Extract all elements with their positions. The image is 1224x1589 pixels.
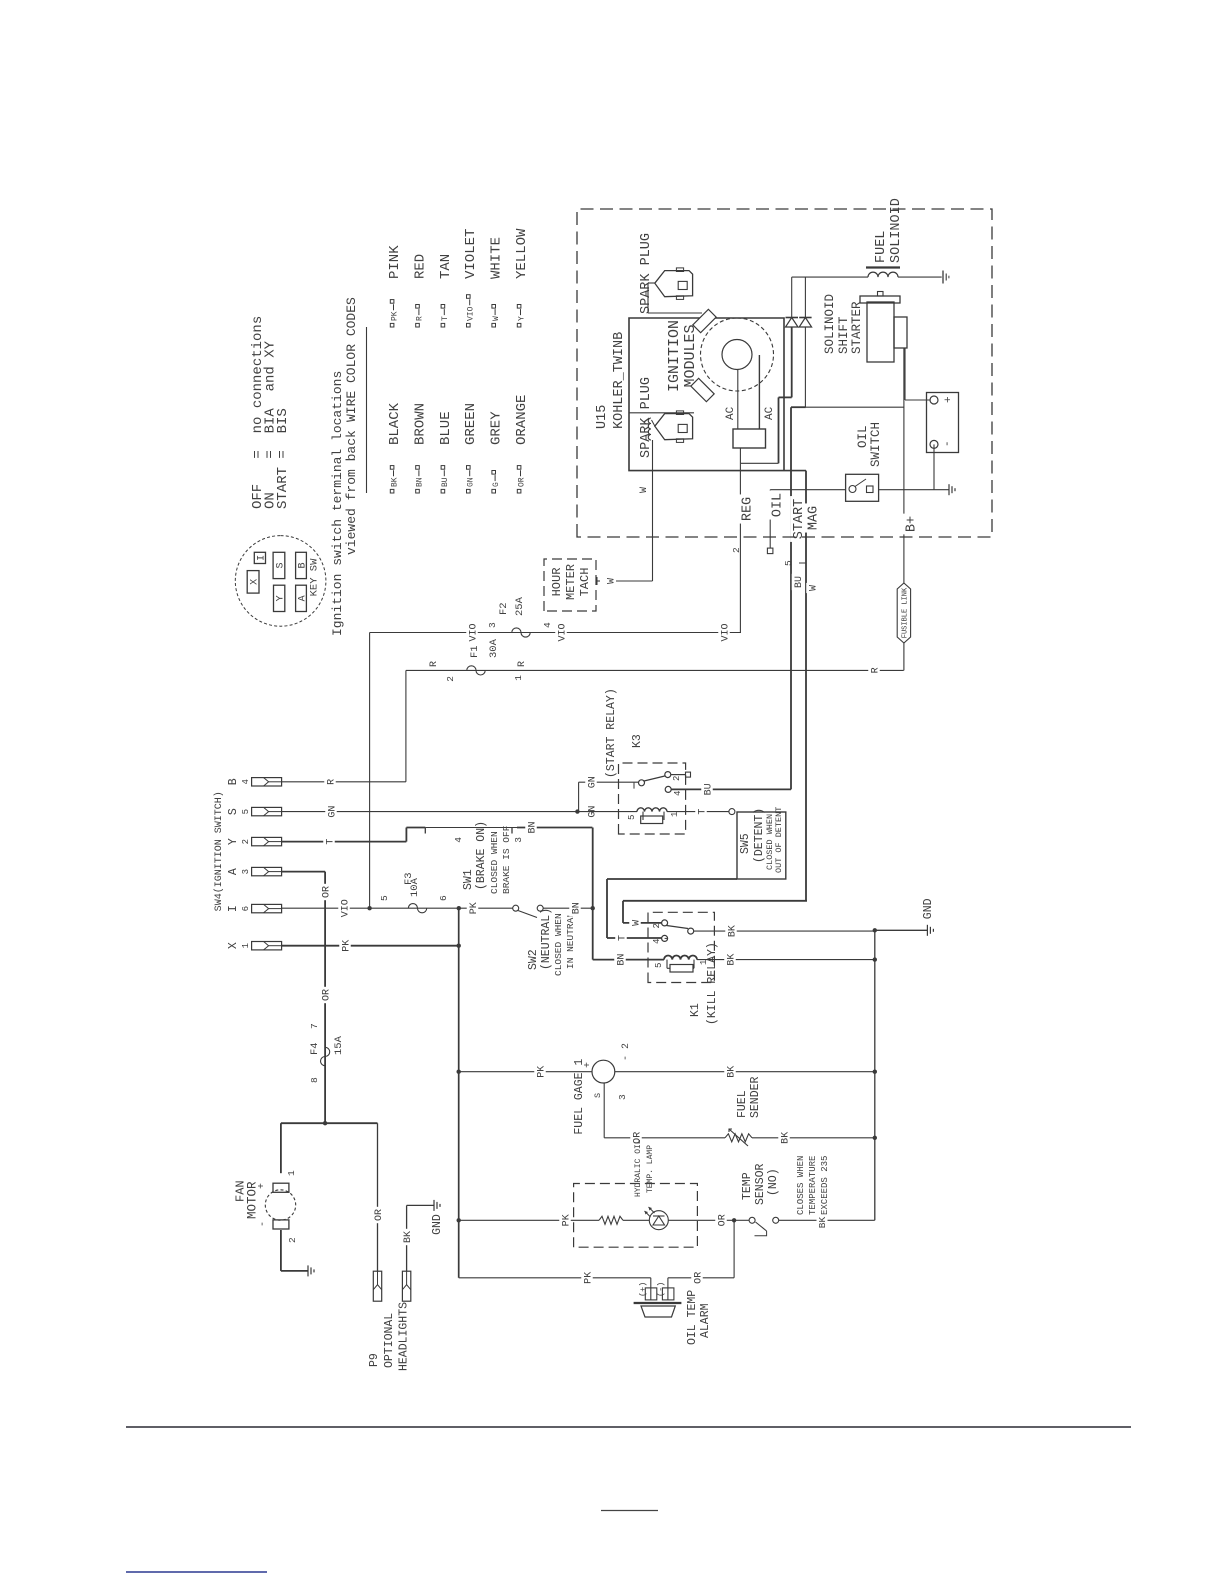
svg-text:T: T [325,839,336,845]
wire: BU from K3 to engine START [671,788,791,790]
svg-text:BU: BU [794,576,805,588]
svg-text:BRAKE IS OFF: BRAKE IS OFF [501,825,512,894]
svg-text:SOLINOID: SOLINOID [889,198,904,263]
svg-text:2: 2 [652,923,662,928]
wire: PK riser (main accessory bus) [458,908,460,1278]
wire: GN branch to K3 pivot [578,782,580,811]
svg-text:EXCEEDS 235: EXCEEDS 235 [820,1156,830,1215]
diode D1 [791,327,793,397]
wire: P9 BK to ground [406,1205,408,1271]
svg-text:5: 5 [783,560,794,566]
wire: PK to lamp [459,1219,599,1221]
svg-text:3: 3 [487,622,498,628]
svg-text:W: W [631,920,642,926]
terminal square OIL [767,548,773,554]
wire: VIO from F2 corner to F3 node [369,633,371,909]
svg-text:BK: BK [727,925,738,937]
battery - terminal [930,440,938,448]
svg-text:(NO): (NO) [767,1168,780,1196]
svg-text:K3: K3 [631,734,644,748]
svg-text:TEMPERATURE: TEMPERATURE [808,1156,818,1215]
ground symbol GND [926,925,928,936]
svg-text:I: I [257,555,268,561]
svg-text:R: R [416,316,425,321]
wire: PK to fuel gauge [459,1071,592,1073]
svg-text:R: R [517,661,528,667]
ground symbol engine [948,484,950,495]
svg-text:PK: PK [469,902,480,914]
wire: VIO feed from ignition switch I terminal to fuses [281,907,369,909]
svg-text:U15: U15 [595,405,610,429]
svg-text:OR: OR [717,1214,728,1226]
svg-text:CLOSED WHEN: CLOSED WHEN [553,913,564,976]
wire: AC 2 [758,355,760,429]
svg-text:BU: BU [441,477,450,487]
svg-text:W: W [492,316,501,321]
wire: lamp output OR [668,1219,734,1221]
svg-text:SW5: SW5 [739,833,752,854]
fusible link [897,583,910,643]
connector P9 BK [402,1271,410,1301]
terminal square below K3 [686,772,691,777]
svg-text:2: 2 [672,776,682,781]
svg-text:SWITCH: SWITCH [869,422,883,467]
svg-text:VIO: VIO [468,623,479,641]
svg-text:BN: BN [616,954,627,966]
fuse F2 25A [512,628,530,637]
svg-text:GND: GND [922,898,935,919]
svg-text:6: 6 [241,906,251,911]
label START terminal [790,496,805,542]
svg-text:FUEL: FUEL [736,1090,749,1118]
wire: OR to fan motor [281,1122,325,1124]
svg-text:PINK: PINK [387,245,403,279]
svg-text:BROWN: BROWN [412,403,428,445]
connector P9 OR [373,1271,381,1301]
wire label VIO on I drop [338,897,350,920]
wire: module left to box edge [629,412,694,414]
fuse F1 30A [406,669,904,671]
svg-text:-: - [258,1221,269,1227]
hydraulic oil temp lamp dashed box [574,1184,698,1248]
svg-text:IGNITION: IGNITION [666,320,683,392]
relay K3 lower contact to BU [665,786,671,792]
svg-text:(+): (+) [638,1282,648,1297]
svg-text:3: 3 [513,837,524,843]
wire: W from hour meter to spark plug [596,580,600,582]
svg-text:BU: BU [703,783,714,795]
svg-text:BN: BN [416,477,425,487]
plug lead coil [648,418,651,440]
rotated schematic [213,198,992,1371]
wire: SW2 feed PK [459,907,513,909]
wire: to temp sensor [734,1219,749,1221]
relay K1 dashed box [648,912,714,982]
svg-text:5: 5 [654,963,664,968]
svg-text:P9: P9 [368,1353,381,1367]
wire: battery - to ground [933,444,935,489]
wire: fan motor to ground [280,1230,282,1271]
svg-text:VIOLET: VIOLET [463,229,479,279]
alarm terminal blocks [645,1288,657,1300]
wire: BN junction to K1 coil [592,908,594,959]
wire: PK riser to alarm [459,1277,651,1279]
svg-text:F4: F4 [309,1042,321,1055]
svg-text:R: R [870,667,881,673]
svg-text:BK: BK [403,1231,414,1243]
svg-text:KOHLER_TWINB: KOHLER_TWINB [612,332,627,429]
switch SW5 terminal [729,809,735,815]
wire: oil switch to ground [879,489,949,491]
LED lamp [623,1219,649,1221]
oil switch contact [849,486,856,493]
svg-text:MAG: MAG [807,506,822,530]
color code WHITE [492,323,496,327]
node: F3 junction with VIO wire from F2 [367,906,371,910]
color code BLUE [441,489,445,493]
wire: fuel solenoid to ground [898,276,942,278]
svg-text:BK: BK [780,1132,791,1144]
svg-text:1: 1 [241,943,251,948]
svg-text:HYDRALIC OIL: HYDRALIC OIL [634,1139,643,1197]
svg-text:ORANGE: ORANGE [514,395,530,445]
svg-text:+: + [943,396,955,403]
svg-text:SPARK PLUG: SPARK PLUG [639,377,654,458]
starter solenoid [894,317,907,348]
svg-text:SHIFT: SHIFT [837,316,851,354]
starter flange [860,296,900,303]
svg-text:GN: GN [327,806,338,818]
svg-text:CLOSES WHEN: CLOSES WHEN [796,1156,806,1215]
key switch terminal X [247,571,259,594]
node: bus to GND [873,928,877,932]
svg-text:1: 1 [699,960,709,965]
svg-text:OR: OR [374,1209,385,1221]
color code GREEN [467,489,471,493]
wire: R from SW4 B terminal to F1 [281,781,406,783]
svg-text:VIO: VIO [467,306,476,321]
svg-text:CLOSED WHEN: CLOSED WHEN [489,831,500,894]
color code TAN [441,323,445,327]
svg-text:Ignition switch terminal locat: Ignition switch terminal locations [330,371,345,636]
rectifier REG box [733,429,766,448]
svg-text:Y: Y [276,595,287,601]
flywheel inner circle [722,340,752,370]
alarm + lead [650,1278,652,1300]
svg-text:5: 5 [379,895,390,901]
svg-text:+: + [257,1183,268,1189]
svg-text:KEY SW: KEY SW [309,558,321,597]
fuel gauge circle [592,1060,615,1083]
svg-text:BN: BN [571,902,582,914]
svg-text:GND: GND [431,1214,444,1235]
fuel sender symbol [725,1134,752,1142]
svg-text:BLACK: BLACK [387,402,403,445]
svg-text:BLUE: BLUE [438,411,454,445]
svg-text:W: W [606,578,617,584]
svg-text:PK: PK [561,1214,572,1226]
spark plug left [655,414,693,440]
ignition module left [691,378,714,401]
switch SW1 brake switch (closed) [406,827,425,829]
svg-text:REG: REG [741,497,756,521]
svg-text:FUEL: FUEL [874,231,889,263]
node: OR junction [323,1121,327,1125]
svg-text:1: 1 [286,1170,297,1176]
svg-text:F2: F2 [498,602,510,615]
key switch terminal I [254,552,265,563]
alarm - lead [667,1278,669,1300]
page center mark [601,1510,658,1512]
svg-text:A: A [297,595,308,601]
svg-text:B+: B+ [905,516,920,532]
fuse F4 15A [321,1047,330,1065]
svg-text:VIO: VIO [340,899,351,917]
wire: REG output [739,463,741,632]
wire: AC 1 [737,370,739,429]
resistor in lamp box [599,1216,623,1224]
svg-text:SW4(IGNITION SWITCH): SW4(IGNITION SWITCH) [213,791,225,911]
svg-text:TEMP. LAMP: TEMP. LAMP [646,1145,655,1193]
wire: OR to P9 headlights [325,1122,377,1124]
wire: GND drop [875,929,928,931]
node: gauge tap on PK riser [457,1070,461,1074]
svg-text:5: 5 [627,815,637,820]
svg-text:8: 8 [309,1077,320,1083]
svg-text:FUSIBLE LINK: FUSIBLE LINK [902,587,910,638]
svg-text:B: B [227,778,240,785]
wire: oil switch to OIL stub [770,489,845,491]
svg-text:GREEN: GREEN [463,403,479,445]
svg-text:PK: PK [583,1272,594,1284]
page rule bottom [126,1426,1131,1428]
svg-text:4: 4 [652,939,662,944]
svg-text:BK: BK [726,1066,737,1078]
wire: MAG line [805,471,807,901]
fuel solenoid coil [868,272,898,277]
svg-text:SOLINOID: SOLINOID [823,294,837,354]
svg-text:(BRAKE ON): (BRAKE ON) [475,821,488,890]
svg-text:(KILL RELAY): (KILL RELAY) [706,942,719,1025]
svg-text:S: S [593,1093,603,1098]
svg-text:A: A [227,868,240,875]
svg-text:BN: BN [527,821,538,833]
svg-text:4: 4 [453,837,464,843]
relay K3 contact [639,780,645,786]
svg-text:TAN: TAN [438,254,454,279]
svg-text:HOUR: HOUR [550,568,564,597]
wire: PK from SW4 X [281,945,458,947]
relay K1 contact [662,920,668,926]
fuse F3 10A [408,904,426,913]
svg-text:Y: Y [227,838,240,845]
wire: BN from SW1 to junction [517,827,592,829]
battery [927,393,959,453]
svg-text:F1: F1 [469,645,481,658]
key switch terminal S [273,552,285,578]
hour meter dashed box [544,559,596,611]
svg-text:STARTER: STARTER [850,301,864,354]
svg-text:5: 5 [241,809,251,814]
ignition module right [693,309,716,332]
svg-text:WHITE: WHITE [489,237,505,279]
svg-text:OR: OR [693,1272,704,1284]
svg-text:GN: GN [467,477,476,487]
svg-text:1: 1 [670,812,680,817]
diode D2 [804,327,806,407]
svg-text:B: B [297,562,308,568]
svg-text:4: 4 [542,622,553,628]
key switch terminal Y [274,585,285,611]
svg-text:S: S [227,808,240,815]
color code GREY [492,489,496,493]
svg-text:YELLOW: YELLOW [514,228,530,279]
svg-text:AC: AC [764,406,776,420]
color code RED [416,323,420,327]
svg-text:OR: OR [322,886,333,898]
svg-text:SENDER: SENDER [749,1076,762,1118]
svg-text:2: 2 [445,676,456,682]
svg-text:HEADLIGHTS: HEADLIGHTS [398,1302,411,1371]
node: GN split [575,809,579,813]
node: BN junction [591,906,595,910]
svg-text:OPTIONAL: OPTIONAL [383,1313,396,1368]
svg-text:(-): (-) [656,1282,666,1297]
svg-text:OIL: OIL [771,493,786,517]
wire: START drop to node [791,406,806,408]
wire: battery + to B+ line [905,399,930,401]
starter motor body [867,302,894,362]
node: lamp tap on PK riser [457,1218,461,1222]
wire: OR from SW4 A to F4 [281,871,325,873]
rule under color codes [366,327,368,493]
svg-text:7: 7 [309,1023,320,1029]
svg-text:PK: PK [341,940,352,952]
svg-text:W: W [808,585,819,591]
wire: GN from SW4 S terminal [281,811,577,813]
svg-text:1: 1 [513,675,524,681]
svg-text:K1: K1 [689,1003,702,1017]
svg-text:FUEL GAGE 1: FUEL GAGE 1 [573,1059,586,1135]
svg-text:-: - [942,440,954,447]
svg-text:2: 2 [241,839,251,844]
temp sensor switch NO [749,1217,755,1223]
wire: fuel solenoid feed [792,276,868,278]
wire: fuel sender BK to bus [752,1137,875,1139]
svg-text:2: 2 [287,1237,298,1243]
svg-text:WIRE COLOR CODES: WIRE COLOR CODES [344,297,359,422]
svg-text:RED: RED [412,254,428,279]
svg-text:10A: 10A [409,877,421,897]
svg-text:SPARK PLUG: SPARK PLUG [639,233,654,314]
svg-text:BK: BK [817,1217,828,1229]
svg-text:R: R [326,779,337,785]
svg-text:TEMP: TEMP [741,1172,754,1200]
oil temp alarm body [634,1302,682,1304]
svg-text:25A: 25A [514,596,526,616]
flywheel outer circle [701,318,774,391]
oil switch box [846,474,879,501]
relay K3 coil with resistor [577,811,637,813]
svg-text:OUT OF DETENT: OUT OF DETENT [774,807,784,873]
wire: fuel gauge BK to bus [615,1071,875,1073]
svg-text:GREY: GREY [489,411,505,445]
svg-text:- 2: - 2 [621,1043,632,1061]
engine solid box [629,318,806,471]
svg-text:AC: AC [725,406,737,420]
wire: K1 contact BK to ground bus [694,930,875,932]
wire: T from K3 coil to SW5 [667,811,729,813]
svg-text:OIL TEMP: OIL TEMP [686,1290,699,1345]
ground symbol fan [307,1265,309,1276]
svg-text:OR: OR [322,989,333,1001]
key switch terminal A [296,585,307,611]
wire: T from SW5 to K1 contact [665,937,668,939]
wire: B+ drop from node [806,406,904,408]
svg-text:X: X [227,942,240,949]
wire: K1 coil BK to ground bus [697,959,875,961]
svg-text:SW1: SW1 [462,869,475,890]
svg-text:R: R [429,661,440,667]
svg-text:3: 3 [241,869,251,874]
svg-text:2: 2 [731,547,742,553]
svg-text:BK: BK [390,477,399,487]
switch SW2 neutral switch [513,905,519,911]
svg-text:START = BIS: START = BIS [275,408,291,509]
svg-text:VIO: VIO [720,623,731,641]
ground symbol P9 [433,1200,435,1211]
key switch circle [235,536,326,627]
relay K3 dashed box [619,763,686,834]
wire: alarm OR return [668,1277,734,1279]
color code VIOLET [467,323,471,327]
wire: VIO/F2 riser to REG [370,632,741,634]
color code ORANGE [517,489,521,493]
wire: B+ horizontal run [903,348,905,670]
svg-text:4: 4 [241,779,251,784]
svg-text:PK: PK [390,311,399,321]
svg-text:MODULES: MODULES [682,324,699,387]
wire: fuel gauge S to sender [603,1083,605,1138]
svg-text:OIL: OIL [856,425,870,448]
svg-text:15A: 15A [333,1035,345,1055]
battery + terminal [930,396,938,404]
svg-text:IN NEUTRAL: IN NEUTRAL [565,912,576,969]
svg-text:3: 3 [617,1094,628,1100]
color code BLACK [390,489,394,493]
footer blue line [126,1571,267,1573]
svg-text:VIO: VIO [557,623,568,641]
svg-text:viewed from back: viewed from back [344,430,359,555]
svg-text:BK: BK [726,954,737,966]
svg-text:GN: GN [587,776,598,788]
ground terminal fuel solenoid [942,271,944,284]
svg-text:G: G [492,482,501,487]
svg-text:SENSOR: SENSOR [754,1163,767,1205]
svg-text:30A: 30A [488,638,500,658]
svg-text:(NEUTRAL): (NEUTRAL) [540,908,553,970]
wire: temp sensor BK to bus [779,1219,875,1221]
wire: SW2 to BN junction [543,907,593,909]
svg-text:4: 4 [673,791,683,796]
switch SW5 detent box [737,812,786,879]
wire: spark plug right to module [648,282,655,284]
spark plug right [655,271,693,297]
svg-text:I: I [227,905,240,912]
svg-text:SW2: SW2 [527,949,540,970]
svg-text:PK: PK [536,1066,547,1078]
color code BROWN [416,489,420,493]
